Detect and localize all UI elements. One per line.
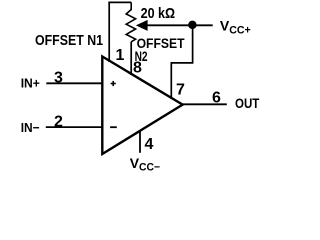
op-amp U1 triangle [102,57,182,155]
svg-text:IN+: IN+ [21,76,40,91]
svg-text:2: 2 [54,113,63,130]
potentiometer wiper arrow [136,20,148,31]
wire top horizontal to resistor [108,1,131,3]
op-amp inverting input minus symbol [110,126,117,128]
wire pin 6 output [183,103,227,105]
junction node dot [188,21,197,30]
svg-text:IN−: IN− [21,120,40,135]
wire VCC+ branch down [192,25,194,63]
svg-text:4: 4 [145,136,154,153]
svg-text:20 kΩ: 20 kΩ [141,6,176,22]
wire wiper to VCC+ [147,24,213,26]
wire pin 8 down from resistor to triangle [130,42,132,75]
resistor R1 20 kOhm zigzag [126,2,135,41]
wire IN- to pin 2 [46,126,103,128]
wire pin 7 down to triangle [170,62,172,99]
wire jog left [171,62,193,64]
svg-text:3: 3 [54,69,63,86]
op-amp noninverting input plus symbol [111,81,116,86]
wire pin 1 up from triangle [108,2,110,62]
svg-text:6: 6 [212,90,221,107]
svg-text:1: 1 [116,47,125,64]
wire IN+ to pin 3 [46,82,102,84]
wire pin 4 down from triangle [139,131,141,153]
svg-text:8: 8 [133,60,142,77]
svg-text:7: 7 [176,82,185,99]
svg-text:OUT: OUT [235,95,260,111]
svg-text:OFFSET N1: OFFSET N1 [35,33,103,49]
